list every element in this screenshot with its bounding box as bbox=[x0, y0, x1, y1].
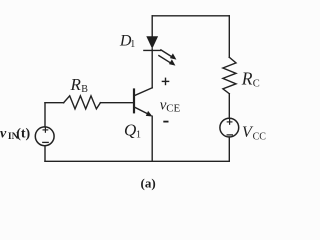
wire LED cathode to collector node bbox=[151, 49, 153, 88]
wire left vertical to source vIN bbox=[44, 103, 46, 127]
svg-text:1: 1 bbox=[136, 130, 141, 141]
svg-text:C: C bbox=[253, 78, 260, 89]
wire VCC bottom bbox=[228, 137, 230, 161]
label RB bbox=[70, 75, 89, 95]
svg-text:CC: CC bbox=[253, 132, 267, 143]
transistor Q1 bbox=[134, 88, 153, 117]
label vCE plus bbox=[162, 78, 170, 86]
wire bottom rail bbox=[45, 160, 229, 162]
LED D1 bbox=[144, 36, 161, 50]
wire RC to VCC bbox=[228, 94, 230, 119]
svg-text:(a): (a) bbox=[141, 175, 156, 190]
source VCC bbox=[220, 118, 239, 137]
wire source vIN bottom bbox=[44, 146, 46, 162]
resistor RC bbox=[223, 57, 236, 93]
label vCE minus bbox=[163, 121, 168, 123]
source vIN(t) bbox=[35, 127, 54, 146]
wire base segment right of RB bbox=[100, 102, 134, 104]
wire emitter vertical bbox=[151, 116, 153, 161]
svg-text:1: 1 bbox=[130, 39, 135, 50]
svg-text:(t): (t) bbox=[16, 126, 30, 141]
label vCE bbox=[160, 97, 181, 114]
svg-text:Q: Q bbox=[124, 120, 136, 139]
label D1 bbox=[119, 32, 135, 50]
label VCC bbox=[242, 124, 266, 143]
resistor RB bbox=[64, 96, 101, 109]
label Q1 bbox=[124, 120, 141, 140]
label vIN(t) bbox=[0, 126, 31, 142]
wire top rail bbox=[152, 15, 229, 17]
LED light emission arrows bbox=[159, 50, 177, 66]
svg-text:v: v bbox=[0, 126, 7, 141]
wire right vertical top bbox=[228, 16, 230, 58]
wire base segment left of RB bbox=[45, 102, 64, 104]
svg-text:R: R bbox=[241, 69, 253, 89]
wire LED anode bbox=[151, 16, 153, 37]
svg-text:R: R bbox=[70, 75, 82, 94]
label RC bbox=[241, 69, 260, 90]
svg-text:B: B bbox=[81, 84, 88, 95]
svg-text:CE: CE bbox=[166, 102, 180, 114]
